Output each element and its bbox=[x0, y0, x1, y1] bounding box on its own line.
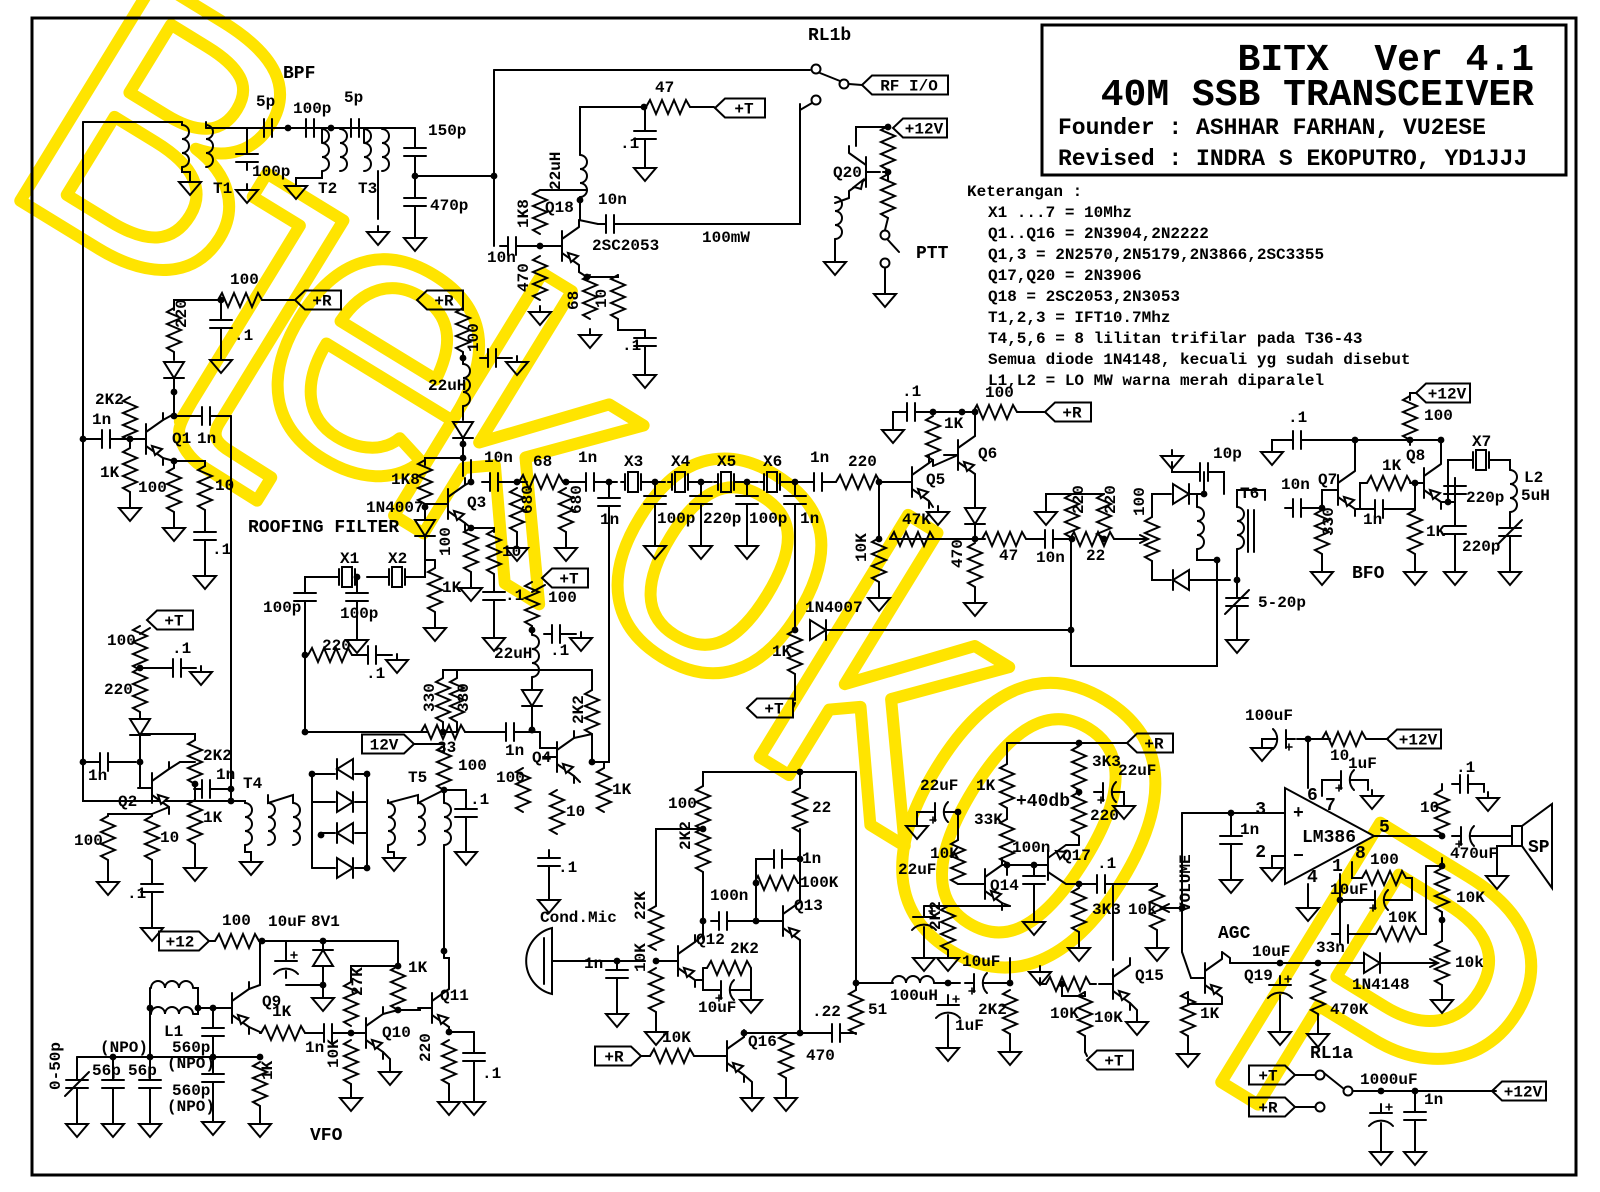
wire q8 col bbox=[1440, 440, 1442, 457]
wire 220p mid bbox=[1454, 502, 1456, 518]
ground 330 bbox=[1311, 566, 1333, 585]
wire 1k q2 bbox=[194, 784, 196, 800]
capacitor 560p b bbox=[202, 1066, 224, 1090]
wire ring r2 bbox=[355, 801, 367, 803]
svg-text:100uH: 100uH bbox=[890, 987, 938, 1005]
capacitor 10uF mic bbox=[712, 980, 738, 1000]
resistor 10 q2e bbox=[145, 816, 159, 860]
contact PTT bottom bbox=[881, 259, 890, 268]
svg-text:330: 330 bbox=[1320, 507, 1338, 536]
resistor 47 bbox=[982, 532, 1026, 546]
wire T1 sec top bbox=[205, 122, 207, 128]
svg-text:X6: X6 bbox=[763, 453, 782, 471]
wire q19 out bbox=[1222, 952, 1230, 963]
wire t5 g bbox=[388, 845, 394, 852]
wire 10p gnd bbox=[1172, 462, 1192, 472]
wire T1 link bbox=[175, 121, 182, 123]
wire 100uf g bbox=[1262, 739, 1269, 742]
resistor 1K q5 bbox=[926, 416, 940, 460]
ground 1n psu bbox=[1404, 1146, 1426, 1165]
capacitor 5p second bbox=[343, 119, 367, 137]
resistor 2K2 q12 bbox=[696, 828, 710, 872]
junction bbox=[1412, 480, 1419, 487]
wire left bus bbox=[82, 122, 84, 762]
junction bbox=[641, 104, 648, 111]
svg-text:Revised : INDRA S EKOPUTRO, YD: Revised : INDRA S EKOPUTRO, YD1JJJ bbox=[1058, 146, 1527, 172]
svg-text:+40db: +40db bbox=[1016, 792, 1070, 812]
ground 10k mic bbox=[645, 1026, 667, 1045]
ground 1uF bbox=[1361, 790, 1383, 809]
svg-text:330: 330 bbox=[421, 683, 439, 712]
contact RL1b common bbox=[812, 65, 821, 74]
svg-text:10K: 10K bbox=[1094, 1009, 1123, 1027]
resistor 100 vfo bbox=[215, 934, 259, 948]
ground 5-20p bbox=[1226, 634, 1248, 653]
svg-text:T1: T1 bbox=[213, 180, 232, 198]
wire 1k-q8 bbox=[1411, 482, 1424, 484]
wire rfg bbox=[356, 609, 358, 634]
potentiometer 10k agc bbox=[1435, 941, 1449, 985]
wire fb r bbox=[790, 858, 800, 860]
wire pin4 bbox=[1307, 884, 1309, 902]
transistor Q10 bbox=[352, 1007, 383, 1059]
wire q9 em2 bbox=[259, 1032, 261, 1033]
resistor 2K2 q2 bbox=[188, 740, 202, 784]
svg-text:−: − bbox=[1293, 847, 1304, 867]
junction bbox=[1352, 437, 1359, 444]
wire 10k g bbox=[350, 1084, 352, 1092]
svg-text:1K: 1K bbox=[1382, 457, 1402, 475]
svg-text:33n: 33n bbox=[1316, 939, 1345, 957]
wire 1n join bbox=[1391, 483, 1415, 509]
svg-text:10K: 10K bbox=[1456, 889, 1485, 907]
ground 22uf in bbox=[906, 820, 928, 839]
svg-text:Q4: Q4 bbox=[532, 749, 552, 767]
wire t6 bottom down bbox=[1071, 560, 1217, 666]
ground q5 bbox=[927, 506, 949, 525]
svg-text:(NPO): (NPO) bbox=[100, 1039, 148, 1057]
svg-text:220: 220 bbox=[1070, 485, 1088, 514]
capacitor 1n mic bbox=[606, 962, 628, 986]
svg-text:1K: 1K bbox=[976, 777, 996, 795]
svg-text:+12V: +12V bbox=[1399, 732, 1438, 750]
wire db bottom bbox=[1103, 538, 1105, 539]
wire flag-10k bbox=[641, 1055, 650, 1057]
ground 1uF bbox=[937, 1042, 959, 1061]
junction bbox=[257, 1054, 264, 1061]
resistor 47 bbox=[646, 100, 690, 114]
svg-text:2K2: 2K2 bbox=[95, 391, 124, 409]
wire rail drop l bbox=[1006, 743, 1008, 764]
contact RL1b NO bbox=[840, 80, 849, 89]
junction bbox=[218, 297, 225, 304]
ground q9 bbox=[249, 1118, 271, 1137]
resistor 1K8 bbox=[533, 190, 547, 234]
transistor Q1 bbox=[132, 413, 163, 465]
resistor 1K8 Q3 bbox=[418, 460, 432, 504]
svg-text:LM386: LM386 bbox=[1302, 828, 1356, 848]
wire T3 down bbox=[377, 171, 379, 219]
wire long down bbox=[592, 514, 609, 762]
capacitor 1n q4 bbox=[498, 723, 522, 741]
capacitor 1n q2 bbox=[92, 753, 116, 771]
svg-text:1uF: 1uF bbox=[955, 1017, 984, 1035]
wire to x3 bbox=[602, 481, 617, 483]
capacitor .1 q2 bbox=[165, 659, 189, 677]
ground 1n lm bbox=[1220, 874, 1242, 893]
wire zener bot bbox=[322, 966, 324, 992]
svg-text:100p: 100p bbox=[263, 599, 301, 617]
capacitor .1 Q1 out bbox=[194, 524, 216, 548]
wire pin2 bbox=[1272, 856, 1285, 862]
svg-text:68: 68 bbox=[565, 291, 583, 310]
svg-text:X3: X3 bbox=[624, 453, 643, 471]
junction bbox=[348, 1030, 355, 1037]
junction bbox=[797, 769, 804, 776]
svg-text:2K2: 2K2 bbox=[978, 1001, 1007, 1019]
wire q7 collector up bbox=[1354, 440, 1356, 464]
ground 1k agc bbox=[1177, 1048, 1199, 1067]
wire 22ufin g bbox=[917, 812, 926, 820]
ground .1 Q1 bbox=[210, 354, 232, 373]
ground .1 q2 bbox=[190, 666, 212, 685]
wire bfo rail2 bbox=[1309, 439, 1441, 441]
wire 1kq8 bbox=[1414, 509, 1416, 510]
capacitor 100n if bbox=[1023, 868, 1045, 892]
transformer T1 secondary bbox=[206, 125, 213, 167]
wire 22uH up bbox=[580, 107, 644, 155]
wire 47k left bbox=[878, 482, 880, 539]
ground f1 bbox=[644, 540, 666, 559]
svg-text:+12V: +12V bbox=[905, 121, 944, 139]
junction bbox=[302, 729, 309, 736]
junction bbox=[529, 727, 536, 734]
wire ring right bbox=[366, 774, 368, 868]
diode ring D1 bbox=[337, 759, 353, 779]
ground q2 100 bbox=[97, 876, 119, 895]
resistor 100K bbox=[754, 876, 798, 890]
ground f3 bbox=[736, 540, 758, 559]
svg-text:5p: 5p bbox=[256, 93, 275, 111]
junction bbox=[955, 809, 962, 816]
junction bbox=[797, 1030, 804, 1037]
transformer T5 w2 bbox=[418, 803, 425, 845]
svg-text:22uF: 22uF bbox=[1118, 762, 1156, 780]
svg-text:1000uF: 1000uF bbox=[1360, 1071, 1418, 1089]
wire d down bbox=[139, 735, 141, 762]
wire flag q15 bbox=[1085, 1052, 1087, 1056]
wire 2k2 join bbox=[129, 441, 131, 448]
svg-text:470: 470 bbox=[806, 1047, 835, 1065]
ground .1 q3 bbox=[483, 632, 505, 651]
crystal X7 bbox=[1469, 450, 1493, 470]
contact rl1a T bbox=[1316, 1071, 1325, 1080]
wire 1k-flag bbox=[794, 674, 796, 700]
ground T2 bbox=[285, 180, 307, 199]
svg-text:680: 680 bbox=[568, 485, 586, 514]
svg-text:+T: +T bbox=[164, 613, 184, 631]
junction bbox=[441, 948, 448, 955]
crystal X5 bbox=[714, 472, 738, 492]
wire sp g bbox=[1497, 846, 1512, 870]
capacitor 10n det bbox=[1037, 530, 1061, 548]
wire 100p down bbox=[304, 609, 306, 655]
flag +12 bbox=[159, 932, 209, 951]
wire mic out bbox=[552, 960, 645, 962]
svg-text:10uF: 10uF bbox=[698, 999, 736, 1017]
svg-text:22uF: 22uF bbox=[920, 777, 958, 795]
wire volume line bbox=[1181, 813, 1183, 952]
junction bbox=[1076, 740, 1083, 747]
junction bbox=[80, 436, 87, 443]
svg-text:Founder : ASHHAR FARHAN, VU2ES: Founder : ASHHAR FARHAN, VU2ESE bbox=[1058, 115, 1486, 141]
wire PA output bbox=[622, 104, 800, 224]
diode bal bottom bbox=[1173, 570, 1189, 590]
ground .1 bfo bbox=[1261, 446, 1283, 465]
ground zener bbox=[312, 992, 334, 1011]
inductor L2 bbox=[1510, 470, 1517, 512]
svg-text:1n: 1n bbox=[1240, 821, 1259, 839]
svg-text:Q12: Q12 bbox=[696, 931, 725, 949]
transistor Q2 bbox=[138, 762, 169, 814]
wire coil-diode bbox=[462, 406, 464, 420]
svg-text:220p: 220p bbox=[1462, 538, 1500, 556]
ground q4 bbox=[538, 894, 560, 913]
svg-text:+T: +T bbox=[764, 701, 784, 719]
wire gnd wire bbox=[1046, 494, 1072, 506]
wire cap to bus bbox=[218, 788, 231, 790]
svg-text:220p: 220p bbox=[703, 510, 741, 528]
svg-text:Q10: Q10 bbox=[382, 1024, 411, 1042]
flag +12V lm386 bbox=[1387, 730, 1441, 749]
wire bd2 bbox=[1189, 579, 1230, 581]
zener 8V1 bbox=[313, 950, 333, 966]
ground 680b bbox=[555, 542, 577, 561]
svg-text:10n: 10n bbox=[487, 249, 516, 267]
svg-text:Q17: Q17 bbox=[1062, 847, 1091, 865]
junction bbox=[1007, 980, 1014, 987]
ground .1 emitter bbox=[634, 369, 656, 388]
wire capg2 bbox=[384, 654, 392, 656]
diode ring D4 bbox=[337, 858, 353, 878]
svg-text:.1: .1 bbox=[620, 135, 639, 153]
wire 1n mic g bbox=[616, 986, 618, 1008]
junction bbox=[364, 771, 371, 778]
wire q3 top bbox=[462, 444, 464, 476]
capacitor 1n bfo bbox=[1367, 500, 1391, 518]
junction bbox=[652, 479, 659, 486]
svg-text:10K: 10K bbox=[325, 1039, 343, 1068]
svg-text:+T: +T bbox=[1258, 1068, 1278, 1086]
ground .1 PA bbox=[634, 162, 656, 181]
svg-text:Q17,Q20 = 2N3906: Q17,Q20 = 2N3906 bbox=[988, 267, 1142, 285]
ground 10uf bbox=[740, 994, 762, 1013]
wire shunt1 bbox=[654, 482, 656, 494]
svg-text:100: 100 bbox=[222, 912, 251, 930]
svg-text:100K: 100K bbox=[800, 874, 839, 892]
wire trim g bbox=[1236, 614, 1238, 634]
wire 10k agc g bbox=[1441, 985, 1443, 994]
svg-text:1uF: 1uF bbox=[1348, 755, 1377, 773]
wire q15 col bbox=[1112, 884, 1114, 960]
resistor 10K out bbox=[1435, 868, 1449, 912]
wire cap gnd bbox=[644, 354, 646, 369]
wire 1n-q4 bbox=[522, 731, 540, 733]
transformer T6 primary bbox=[1197, 507, 1204, 549]
wire 10kg bbox=[878, 582, 880, 592]
resistor 1K switch bbox=[788, 630, 802, 674]
wire 560 mid bbox=[212, 1044, 214, 1066]
wire jct-res bbox=[933, 411, 973, 413]
junction bbox=[110, 1054, 117, 1061]
transistor Q16 bbox=[713, 1030, 744, 1082]
resistor 10 supply bbox=[1322, 732, 1366, 746]
svg-text:ROOFING FILTER: ROOFING FILTER bbox=[248, 518, 399, 538]
wire diode-q3 bbox=[462, 438, 464, 444]
junction bbox=[753, 918, 760, 925]
svg-text:.1: .1 bbox=[550, 642, 569, 660]
svg-text:1: 1 bbox=[1332, 857, 1343, 877]
wire 10n-base bbox=[1309, 507, 1322, 509]
wire agc wire bbox=[1230, 962, 1364, 964]
wire l1 left bbox=[149, 988, 151, 1014]
wire 1k lead bbox=[434, 560, 436, 568]
resistor 10K fb bbox=[1376, 927, 1420, 941]
trimmer L2 bbox=[1498, 520, 1522, 544]
wire tie2 bbox=[532, 669, 592, 671]
wire ptt lever bbox=[888, 240, 899, 252]
wire 10n to base bbox=[524, 245, 562, 247]
wire ring conns bbox=[312, 773, 335, 775]
capacitor .1 emitter bbox=[634, 330, 656, 354]
capacitor .1 q17 bbox=[1089, 875, 1113, 893]
wire mix cap bbox=[444, 790, 466, 801]
resistor 10K q15 b bbox=[1078, 992, 1092, 1036]
junction bbox=[1319, 505, 1326, 512]
svg-text:.1: .1 bbox=[505, 587, 524, 605]
svg-text:VFO: VFO bbox=[310, 1126, 343, 1146]
transformer T4 w2 bbox=[268, 803, 275, 845]
wire 1n shunt bbox=[608, 482, 610, 494]
svg-text:Keterangan :: Keterangan : bbox=[967, 183, 1082, 201]
wire t6s bot bbox=[1236, 549, 1238, 580]
wire 220db top bbox=[1103, 493, 1105, 495]
wire res-coil bbox=[462, 352, 464, 364]
transformer T4 w3 bbox=[293, 803, 300, 845]
wire 10-flag bbox=[1366, 738, 1388, 740]
wire pin1 wire bbox=[1340, 874, 1366, 900]
svg-text:1K: 1K bbox=[944, 415, 964, 433]
junction bbox=[468, 525, 475, 532]
junction bbox=[127, 436, 134, 443]
svg-text:1K: 1K bbox=[259, 1060, 277, 1080]
svg-text:1K: 1K bbox=[1426, 523, 1446, 541]
resistor 680 a bbox=[510, 488, 524, 532]
crystal X4 bbox=[668, 472, 692, 492]
wire vfo rail2 bbox=[259, 940, 398, 942]
wire 10n-222 bbox=[1061, 538, 1072, 540]
svg-text:100: 100 bbox=[1131, 487, 1149, 516]
ground 100 Q1 bbox=[163, 522, 185, 541]
junction bbox=[491, 173, 498, 180]
junction bbox=[1439, 917, 1446, 924]
wire 100n g bbox=[1033, 892, 1035, 916]
wire pin1 down bbox=[1339, 900, 1341, 934]
transistor Q20 bbox=[849, 146, 880, 198]
capacitor 33n bbox=[1332, 925, 1356, 943]
wire diode tail bbox=[531, 706, 533, 730]
ground 2k2 q14 bbox=[937, 952, 959, 971]
svg-text:10k: 10k bbox=[1128, 901, 1157, 919]
wire cap lead bbox=[220, 300, 222, 312]
wire l2-trim bbox=[1509, 512, 1511, 520]
wire lever rl1a bbox=[1324, 1073, 1344, 1089]
svg-text:Q5: Q5 bbox=[926, 471, 945, 489]
resistor 2K2 q14 bbox=[941, 906, 955, 950]
resistor 10 q4 bbox=[550, 790, 564, 834]
wire q19 em bbox=[1188, 992, 1222, 1004]
svg-text:Q1: Q1 bbox=[172, 430, 191, 448]
svg-text:40M SSB TRANSCEIVER: 40M SSB TRANSCEIVER bbox=[1101, 74, 1534, 117]
svg-text:1K8: 1K8 bbox=[515, 199, 533, 228]
wire zener top bbox=[322, 941, 324, 950]
ground q10 bbox=[379, 1066, 401, 1085]
svg-text:+12: +12 bbox=[166, 934, 195, 952]
svg-text:.1: .1 bbox=[482, 1065, 501, 1083]
svg-text:1n: 1n bbox=[92, 411, 111, 429]
wire 22k top bbox=[656, 829, 703, 906]
svg-text:10n: 10n bbox=[598, 191, 627, 209]
ground pin4 bbox=[1297, 902, 1319, 921]
svg-text:100: 100 bbox=[668, 795, 697, 813]
junction bbox=[320, 938, 327, 945]
capacitor 1uF bbox=[1332, 770, 1358, 790]
resistor 1K q11 bbox=[391, 966, 405, 1010]
svg-text:T1,2,3 = IFT10.7Mhz: T1,2,3 = IFT10.7Mhz bbox=[988, 309, 1170, 327]
wire 10 bottom bbox=[618, 319, 645, 330]
ground 56b bbox=[139, 1118, 161, 1137]
svg-text:L1,L2 = LO MW warna merah dipa: L1,L2 = LO MW warna merah diparalel bbox=[988, 372, 1324, 390]
diode bal top bbox=[1173, 484, 1189, 504]
wire q11 em bbox=[448, 1027, 450, 1032]
capacitor 10uF gain bbox=[1366, 890, 1392, 910]
svg-text:10K: 10K bbox=[632, 943, 650, 972]
ground f2 bbox=[690, 540, 712, 559]
svg-text:Q14: Q14 bbox=[990, 877, 1019, 895]
wire emitter bus bbox=[924, 905, 1010, 907]
wire 220pa bbox=[1448, 478, 1455, 502]
wire 56a bbox=[112, 1057, 114, 1072]
resistor 33 bbox=[421, 725, 465, 739]
wire q8-x7 bbox=[1448, 460, 1469, 502]
wire q14 em bbox=[1002, 903, 1010, 906]
wire t6s top bbox=[1237, 490, 1265, 507]
potentiometer 100 carrier bbox=[1145, 517, 1159, 561]
ground 100uF bbox=[1251, 742, 1273, 761]
resistor 100 q4 bbox=[516, 768, 530, 812]
wire q1 collector bbox=[163, 414, 174, 420]
svg-text:1N4007: 1N4007 bbox=[366, 499, 424, 517]
svg-text:100p: 100p bbox=[657, 510, 695, 528]
wire q15b bbox=[1062, 984, 1085, 996]
wire 10p lead bbox=[1203, 472, 1205, 494]
capacitor .1 out bbox=[1452, 775, 1476, 793]
ground q2e bbox=[141, 922, 163, 941]
wire q12 em bbox=[695, 979, 703, 981]
wire fb tap bbox=[1426, 865, 1442, 867]
svg-text:220: 220 bbox=[1102, 485, 1120, 514]
wire q16 em bbox=[744, 1075, 752, 1092]
